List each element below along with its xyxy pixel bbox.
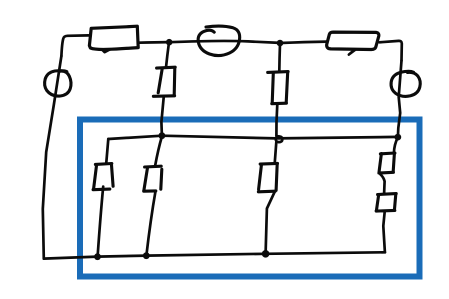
resistor R3 (vertical box under node A) <box>157 66 176 70</box>
node A (junction dot top-left) <box>166 39 173 46</box>
node C (junction dot on middle bus) <box>159 132 166 139</box>
wire left vertical through source V1 down to bottom-left corner <box>43 56 62 259</box>
resistor R2 (top-right horizontal box) <box>327 32 379 49</box>
wire drop from middle bus left end to resistor R5 <box>106 139 108 163</box>
wire from R7 down to bottom node G (with kink) <box>266 192 275 254</box>
wire from node B to resistor R2 <box>280 42 327 43</box>
wire from node D down to resistor R8 <box>394 138 398 153</box>
resistor R5 (first bottom vertical box) <box>95 162 111 166</box>
crossing loop (small hand-drawn loop at bus crossing) <box>276 136 283 142</box>
node E (bottom junction dot 1) <box>94 253 101 260</box>
resistor R4 (vertical box under node B) <box>268 70 288 74</box>
wire from R4 down across blue box edge to crossing loop <box>275 104 279 136</box>
resistor R1 (top horizontal box) <box>89 26 138 49</box>
wire from R9 down to bottom-right corner <box>383 212 385 253</box>
node G (bottom junction dot 3) <box>262 250 270 258</box>
node F (bottom junction dot 2) <box>143 252 150 259</box>
source V1 (circle, left) <box>45 71 71 96</box>
node D (junction dot right end of middle bus) <box>394 134 401 141</box>
resistor R8 (upper right vertical box) <box>380 151 395 155</box>
resistor R1 pen tail <box>102 49 110 52</box>
wire from R3 down across blue box edge to node C <box>161 97 163 135</box>
wire top-left bend from source V1 up to resistor R1 <box>61 35 88 56</box>
wire from R6 down to bottom node F <box>146 191 155 255</box>
wire from R5 down to bottom node E <box>98 187 104 257</box>
bottom bus wire (slanted ground return) <box>44 252 385 258</box>
wire from R1 to node A <box>139 41 169 44</box>
wire from R2 right to corner and down to source V3 <box>380 41 402 61</box>
wire from source V3 down to node D <box>398 61 402 137</box>
wire from node A through source V2 to node B <box>169 41 280 43</box>
source V3 (circle, right) <box>391 71 420 96</box>
resistor R6 (second bottom vertical box) <box>145 165 162 169</box>
source V2 (open circle, top middle) <box>198 26 240 56</box>
wire from crossing loop down to resistor R7 <box>275 142 277 163</box>
wire connector between R8 and R9 <box>380 174 384 194</box>
highlight box (blue selection rectangle) <box>80 120 420 277</box>
resistor R7 (third bottom vertical box) <box>260 162 277 166</box>
resistor R9 (lower right vertical box) <box>378 192 397 196</box>
node B (junction dot top-right) <box>277 40 284 47</box>
wire from node B down to resistor R4 <box>278 44 281 72</box>
wire from node A down to resistor R3 <box>166 43 169 67</box>
resistor R2 pen tail <box>349 50 355 55</box>
middle bus wire (horizontal inside highlight box) <box>108 136 398 139</box>
wire from node C down to resistor R6 <box>155 136 162 165</box>
